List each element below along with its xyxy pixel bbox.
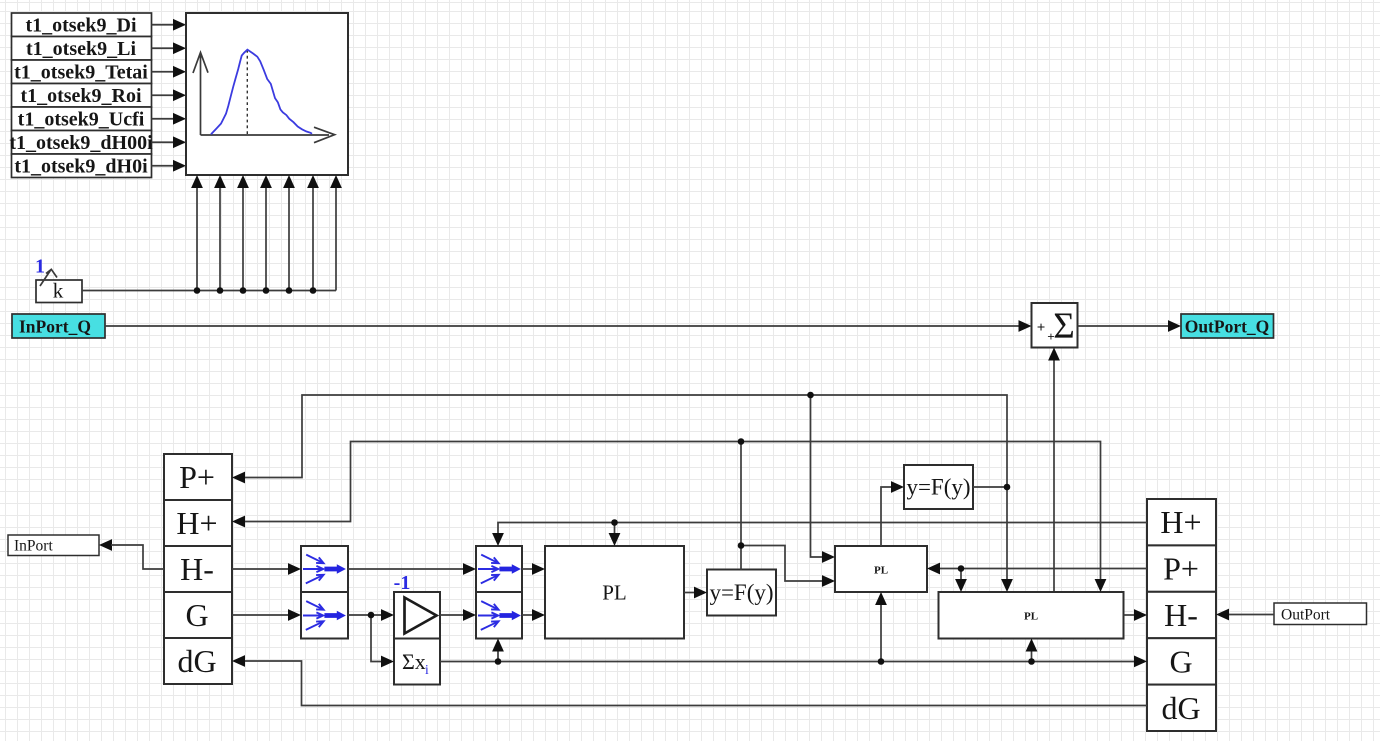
wire sum to OutPort_Q (1078, 325, 1172, 327)
wire dH00i to plot (152, 141, 176, 143)
junction dot riser 6 (310, 287, 317, 294)
wire right H+ feed to FR1 and big PL tops (498, 523, 1147, 537)
junction dot riser 5 (286, 287, 293, 294)
right column cell H- (1147, 592, 1216, 638)
wire PL2 out to right H- (1124, 614, 1138, 616)
svg-text:H+: H+ (1160, 504, 1201, 540)
svg-text:H-: H- (180, 551, 214, 587)
big PL block (545, 546, 684, 639)
wire riser 7 (335, 186, 337, 291)
arrowhead into F2 (891, 481, 904, 493)
source block t1_otsek9_dH00i (9, 131, 153, 155)
gain -1 amplifier block (394, 572, 440, 639)
arrowhead into PL1 lower-left (822, 575, 835, 587)
svg-text:t1_otsek9_Li: t1_otsek9_Li (26, 38, 136, 60)
plot blue bell curve (211, 50, 312, 135)
junction dot Sum_xi wire at PL2 (1028, 658, 1035, 665)
wire Ucfi to plot (152, 118, 176, 120)
svg-text:P+: P+ (179, 459, 215, 495)
svg-text:+: + (1047, 329, 1054, 344)
svg-text:t1_otsek9_Ucfi: t1_otsek9_Ucfi (18, 109, 145, 131)
svg-text:dG: dG (177, 643, 216, 679)
arrowhead into left P+ (232, 472, 245, 484)
left column cell dG (164, 638, 232, 684)
arrowhead riser 1 into plot bottom (191, 175, 203, 188)
wire right dG feed to left dG (242, 661, 1147, 706)
arrowhead up into PL2 bottom (1026, 639, 1038, 652)
arrowhead riser 4 into plot bottom (260, 175, 272, 188)
left column cell G (164, 592, 232, 638)
plot x axis (201, 127, 335, 143)
right column cell G (1147, 638, 1216, 684)
arrowhead into FL1 (288, 563, 301, 575)
arrowhead into FR1 (463, 563, 476, 575)
source block t1_otsek9_Roi (12, 84, 152, 108)
summator U_sum (1032, 303, 1078, 348)
wire left H- out to FL1 (232, 568, 291, 570)
junction dot riser 1 (194, 287, 201, 294)
wire dH0i to plot (152, 165, 176, 167)
plot y axis (193, 53, 208, 136)
right column cell H+ (1147, 499, 1216, 545)
arrowhead riser 5 into plot bottom (283, 175, 295, 188)
wire riser 3 (242, 186, 244, 291)
arrowhead into FL2 (288, 609, 301, 621)
wire riser 5 (288, 186, 290, 291)
junction dot F2 net at y487 (1004, 484, 1011, 491)
wire FR2 out to big PL (522, 614, 535, 616)
svg-text:InPort: InPort (14, 538, 53, 555)
arrowhead into FR2 (463, 609, 476, 621)
svg-text:+: + (1037, 320, 1046, 336)
small PL block #1 (835, 546, 927, 592)
wire Tetai to plot (152, 71, 176, 73)
svg-text:G: G (1169, 643, 1192, 679)
arrowhead into PL1 right input (927, 563, 940, 575)
wire amp out to FR2 (440, 614, 466, 616)
left column cell H- (164, 546, 232, 592)
junction dot P+ feed at PL2 (958, 565, 965, 572)
junction dot Sum_xi wire at PL1 (878, 658, 885, 665)
svg-text:P+: P+ (1163, 551, 1199, 587)
wire PL1 top output to F2 input (881, 487, 894, 546)
svg-text:Σ: Σ (1053, 306, 1075, 347)
arrowhead down into FR1 top (492, 533, 504, 546)
source block t1_otsek9_Li (12, 37, 152, 61)
wire riser 4 (265, 186, 267, 291)
port InPort (8, 535, 99, 556)
left column cell H+ (164, 500, 232, 546)
arrowhead into left dG (232, 655, 245, 667)
arrowhead into plot input 7 (173, 160, 186, 172)
arrowhead into sum left input (1019, 320, 1032, 332)
arrowhead riser 6 into plot bottom (307, 175, 319, 188)
wire InPort_Q to sum (105, 325, 1021, 327)
right column cell dG (1147, 685, 1216, 731)
junction dot riser 2 (217, 287, 224, 294)
fan-in block FR1 (476, 546, 522, 592)
arrowhead into OutPort_Q (1168, 320, 1181, 332)
fan-in block FL2 (301, 592, 348, 639)
wire branch up into PL2 bottom (1031, 649, 1033, 662)
svg-text:OutPort: OutPort (1281, 607, 1331, 624)
arrowhead into big PL in2 (532, 609, 545, 621)
svg-text:H+: H+ (176, 505, 217, 541)
source block t1_otsek9_dH0i (12, 154, 152, 178)
arrowhead into plot input 4 (173, 89, 186, 101)
arrowhead into left H+ (232, 516, 245, 528)
wire net of F1 top output (242, 442, 1101, 583)
port InPort_Q (12, 314, 105, 338)
svg-text:t1_otsek9_dH00i: t1_otsek9_dH00i (9, 132, 153, 154)
port OutPort_Q (1181, 314, 1274, 338)
arrowhead into plot input 2 (173, 42, 186, 54)
arrowhead into sum bottom input (1048, 348, 1060, 361)
arrowhead into big PL in1 (532, 563, 545, 575)
junction dot riser 4 (263, 287, 270, 294)
source block t1_otsek9_Di (12, 13, 152, 37)
wire left H- to InPort (111, 545, 164, 569)
left column cell P+ (164, 454, 232, 500)
svg-text:InPort_Q: InPort_Q (19, 317, 91, 337)
arrowhead into Sum_xi (381, 656, 394, 668)
svg-text:t1_otsek9_Di: t1_otsek9_Di (25, 15, 137, 37)
wire big PL out to F1 (684, 592, 697, 594)
svg-text:PL: PL (874, 565, 888, 577)
svg-text:1: 1 (35, 256, 45, 278)
wire PL2 top output up to sum bottom input (1053, 358, 1055, 592)
k variable arrow decoration (40, 269, 57, 286)
right column cell P+ (1147, 545, 1216, 591)
wire Sum_xi long output to right G (440, 661, 1137, 663)
wire left G out to FL2 (232, 614, 291, 616)
arrowhead into F1 (694, 587, 707, 599)
wire branch up into FR2 bottom (497, 649, 499, 662)
svg-text:t1_otsek9_Tetai: t1_otsek9_Tetai (14, 62, 148, 84)
wire Di to plot (152, 24, 176, 26)
arrowhead riser 7 into plot bottom (330, 175, 342, 188)
junction dot FL2 branch (368, 612, 375, 619)
wire riser 6 (312, 186, 314, 291)
wire FR1 out to big PL (522, 568, 535, 570)
wire riser 1 (196, 186, 198, 291)
arrowhead riser 3 into plot bottom (237, 175, 249, 188)
wire Li to plot (152, 47, 176, 49)
arrowhead up into FR2 bottom (492, 639, 504, 652)
svg-text:-1: -1 (394, 572, 411, 594)
junction dot Sum_xi wire at FR2 (495, 658, 502, 665)
wire FL2 out to amp with branch to Sum_xi (348, 615, 384, 662)
svg-text:PL: PL (1024, 611, 1038, 623)
source block t1_otsek9_Ucfi (12, 107, 152, 131)
svg-text:y=F(y): y=F(y) (906, 475, 970, 500)
junction dot riser 3 (240, 287, 247, 294)
svg-text:Σx: Σx (402, 649, 426, 674)
svg-text:y=F(y): y=F(y) (709, 580, 773, 605)
svg-text:dG: dG (1161, 690, 1200, 726)
svg-text:G: G (185, 597, 208, 633)
junction dot F2 net at y395 (807, 392, 814, 399)
junction dot F1 net at y441 (738, 438, 745, 445)
arrowhead into plot input 1 (173, 19, 186, 31)
fan-in block FL1 (301, 546, 348, 592)
arrowhead up into PL1 bottom (875, 592, 887, 605)
arrowhead into plot input 6 (173, 136, 186, 148)
plot dashed mean line (246, 50, 248, 135)
svg-text:H-: H- (1164, 597, 1198, 633)
wire right P+ feed to PL1 right input (939, 569, 1147, 583)
arrowhead down into big PL top (609, 533, 621, 546)
wire Roi to plot (152, 94, 176, 96)
wire FL1 out to FR1 (348, 568, 466, 570)
svg-text:i: i (425, 662, 429, 677)
wire riser 2 (219, 186, 221, 291)
arrowhead into plot input 5 (173, 113, 186, 125)
arrowhead into right H- from OutPort (1216, 609, 1229, 621)
arrowhead into InPort (99, 539, 112, 551)
junction dot F1 net at y545 (738, 542, 745, 549)
function block y=F(y) #1 (707, 570, 776, 616)
function block y=F(y) #2 (904, 465, 973, 509)
arrowhead into plot input 3 (173, 66, 186, 78)
svg-text:OutPort_Q: OutPort_Q (1185, 317, 1270, 337)
arrowhead riser 2 into plot bottom (214, 175, 226, 188)
svg-text:t1_otsek9_dH0i: t1_otsek9_dH0i (14, 156, 148, 178)
arrowhead into right H- from PL2 (1134, 609, 1147, 621)
small PL block #2 (wide) (939, 592, 1124, 639)
wire k horizontal run (82, 290, 336, 292)
svg-text:k: k (53, 279, 64, 303)
svg-text:t1_otsek9_Roi: t1_otsek9_Roi (20, 85, 142, 107)
wire OutPort to right H- (1228, 614, 1274, 616)
arrowhead down into PL2 top from F1 net (1095, 579, 1107, 592)
svg-text:PL: PL (602, 581, 627, 605)
summator block Sum_xi (394, 639, 440, 685)
source block t1_otsek9_Tetai (12, 60, 152, 84)
arrowhead down into PL2 top from F2 net (1001, 579, 1013, 592)
fan-in block FR2 (476, 592, 522, 639)
arrowhead down into PL2 top from P+ feed (955, 579, 967, 592)
junction dot H+ feed at big PL (611, 519, 618, 526)
arrowhead into amp (381, 609, 394, 621)
arrowhead into PL1 upper-left (822, 551, 835, 563)
port OutPort (1274, 603, 1367, 625)
arrowhead into right G (1134, 656, 1147, 668)
wire net of F2 output (242, 395, 1007, 582)
wire branch up into PL1 bottom (880, 603, 882, 662)
